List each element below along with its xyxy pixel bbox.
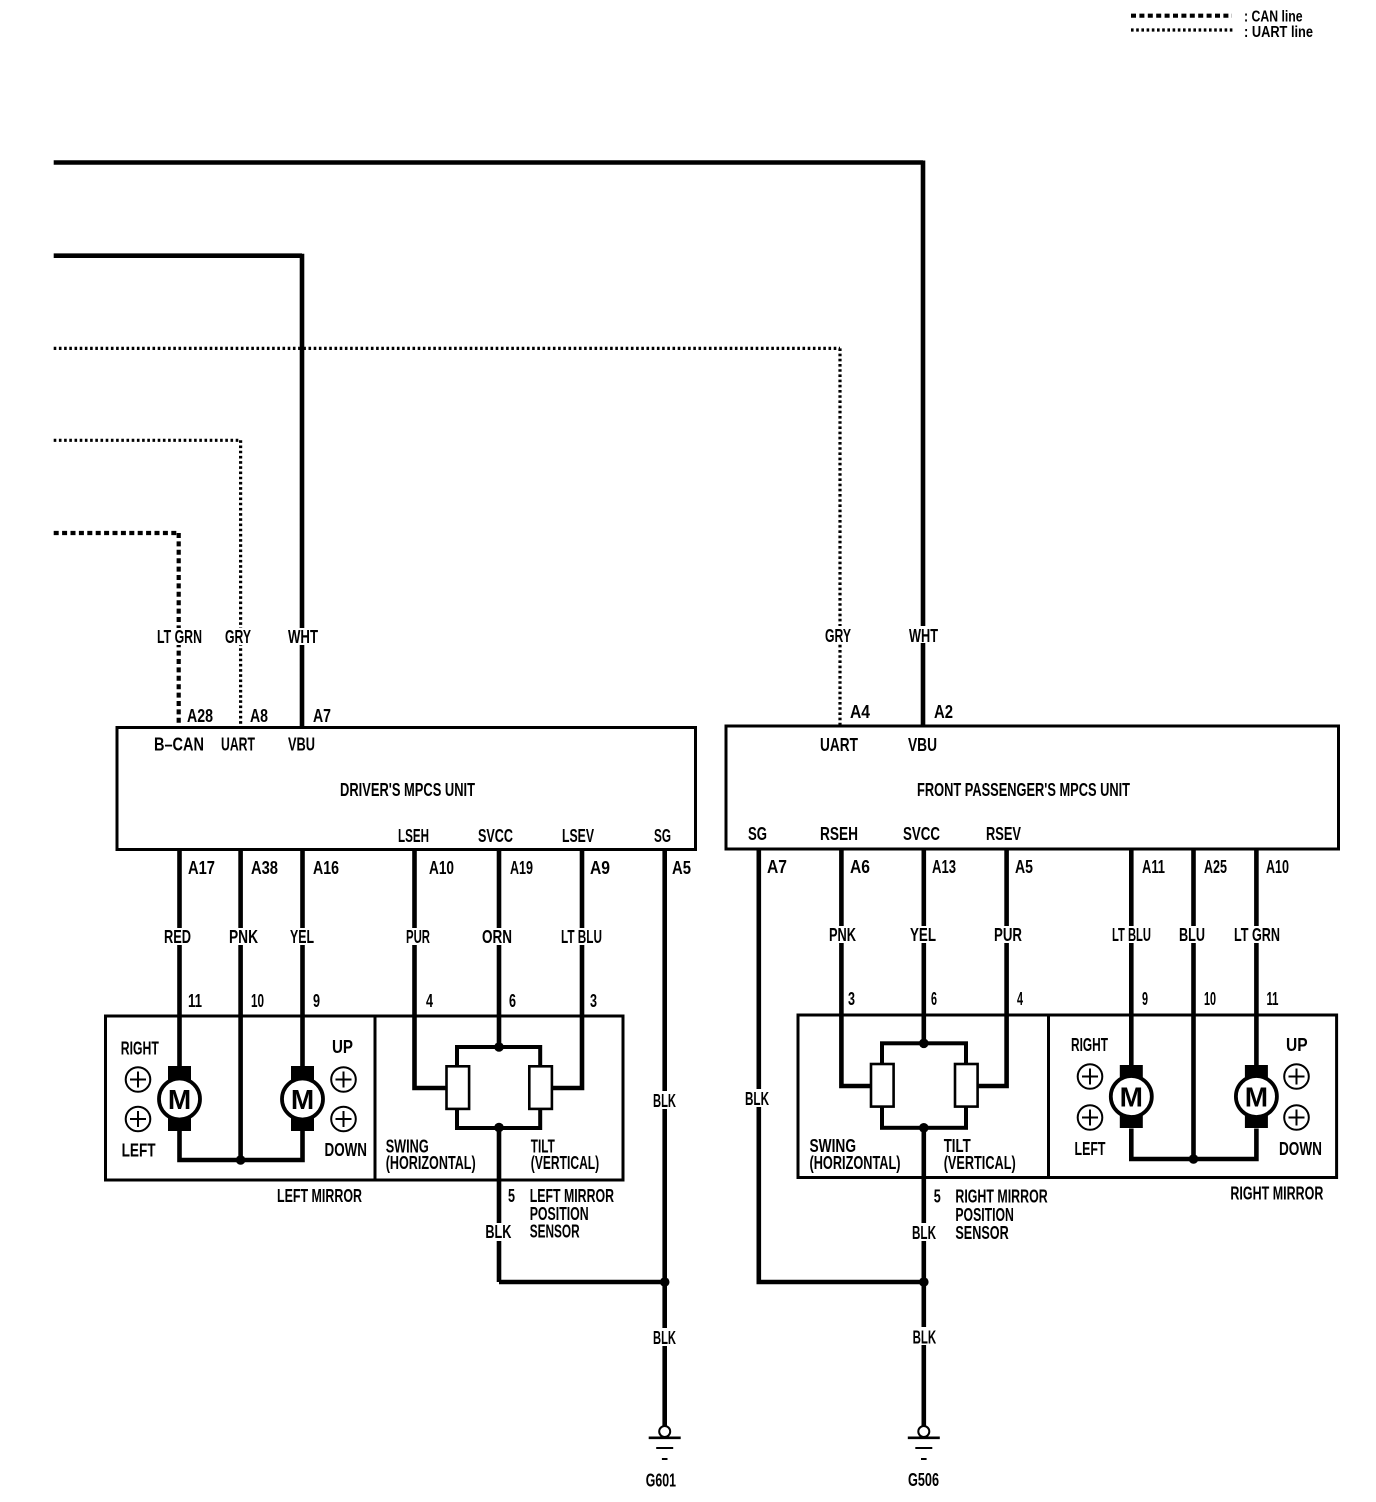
svg-text:UP: UP <box>332 1037 353 1057</box>
svg-text:6: 6 <box>509 991 516 1011</box>
svg-text:(HORIZONTAL): (HORIZONTAL) <box>386 1153 476 1173</box>
svg-text:YEL: YEL <box>910 925 936 945</box>
svg-text:3: 3 <box>590 991 597 1011</box>
svg-text:RIGHT MIRROR: RIGHT MIRROR <box>1230 1184 1323 1204</box>
svg-text:LT GRN: LT GRN <box>1234 925 1280 945</box>
svg-text:POSITION: POSITION <box>955 1205 1014 1225</box>
svg-text:: CAN line: : CAN line <box>1244 9 1303 26</box>
svg-text:A28: A28 <box>187 706 213 726</box>
svg-text:ORN: ORN <box>482 927 512 947</box>
svg-text:BLK: BLK <box>745 1089 769 1109</box>
svg-text:VBU: VBU <box>288 735 315 755</box>
svg-text:5: 5 <box>508 1186 515 1206</box>
svg-text:A13: A13 <box>932 857 956 877</box>
svg-text:M: M <box>291 1084 314 1115</box>
svg-text:DOWN: DOWN <box>325 1140 368 1160</box>
svg-text:A8: A8 <box>250 706 268 726</box>
svg-text:5: 5 <box>934 1187 941 1207</box>
svg-text:A19: A19 <box>510 858 533 878</box>
svg-text:UART: UART <box>221 735 255 755</box>
svg-text:M: M <box>1120 1082 1143 1113</box>
svg-text:DRIVER'S MPCS UNIT: DRIVER'S MPCS UNIT <box>340 780 475 800</box>
svg-text:FRONT PASSENGER'S MPCS UNIT: FRONT PASSENGER'S MPCS UNIT <box>917 780 1130 800</box>
svg-text:RSEV: RSEV <box>986 824 1021 844</box>
svg-text:A5: A5 <box>1015 857 1033 877</box>
svg-text:GRY: GRY <box>825 626 851 646</box>
svg-text:10: 10 <box>251 991 264 1011</box>
svg-text:4: 4 <box>1017 989 1023 1009</box>
svg-text:A2: A2 <box>934 702 953 722</box>
svg-text:6: 6 <box>931 989 937 1009</box>
svg-text:A11: A11 <box>1142 857 1165 877</box>
svg-text:9: 9 <box>313 991 320 1011</box>
svg-text:(HORIZONTAL): (HORIZONTAL) <box>810 1153 901 1173</box>
svg-text:11: 11 <box>1267 989 1279 1009</box>
svg-text:RIGHT: RIGHT <box>121 1039 159 1059</box>
svg-text:A9: A9 <box>590 858 610 878</box>
svg-text:LEFT: LEFT <box>1075 1139 1106 1159</box>
svg-text:A7: A7 <box>767 857 787 877</box>
svg-text:A38: A38 <box>251 858 278 878</box>
svg-text:A16: A16 <box>313 858 339 878</box>
svg-text:3: 3 <box>848 989 855 1009</box>
svg-text:B–CAN: B–CAN <box>154 735 204 755</box>
svg-text:LT GRN: LT GRN <box>157 627 202 647</box>
svg-text:SVCC: SVCC <box>903 824 940 844</box>
svg-text:RED: RED <box>164 927 191 947</box>
svg-text:A4: A4 <box>850 702 870 722</box>
svg-text:A17: A17 <box>188 858 215 878</box>
svg-text:PNK: PNK <box>229 927 258 947</box>
svg-text:(VERTICAL): (VERTICAL) <box>944 1153 1016 1173</box>
svg-text:4: 4 <box>426 991 433 1011</box>
svg-text:RIGHT: RIGHT <box>1071 1035 1108 1055</box>
svg-text:LEFT: LEFT <box>122 1141 156 1161</box>
svg-text:A7: A7 <box>313 706 331 726</box>
svg-text:11: 11 <box>188 991 202 1011</box>
svg-text:UART: UART <box>820 735 858 755</box>
svg-text:BLK: BLK <box>653 1091 676 1111</box>
svg-text:LT BLU: LT BLU <box>1112 925 1151 945</box>
svg-text:PNK: PNK <box>829 925 856 945</box>
svg-text:GRY: GRY <box>225 627 251 647</box>
svg-text:UP: UP <box>1286 1035 1308 1055</box>
svg-text:SVCC: SVCC <box>478 826 513 846</box>
svg-text:A10: A10 <box>429 858 454 878</box>
svg-text:PUR: PUR <box>994 925 1022 945</box>
svg-text:A10: A10 <box>1266 857 1289 877</box>
svg-text:WHT: WHT <box>909 626 938 646</box>
svg-text:RSEH: RSEH <box>820 824 858 844</box>
svg-text:BLK: BLK <box>913 1328 937 1348</box>
svg-text:WHT: WHT <box>288 627 318 647</box>
svg-text:RIGHT MIRROR: RIGHT MIRROR <box>955 1187 1047 1207</box>
svg-text:LSEV: LSEV <box>562 826 594 846</box>
svg-text:LEFT MIRROR: LEFT MIRROR <box>277 1186 362 1206</box>
svg-text:SENSOR: SENSOR <box>955 1223 1008 1243</box>
svg-text:BLK: BLK <box>485 1222 511 1242</box>
svg-text:G601: G601 <box>646 1471 676 1491</box>
svg-text:DOWN: DOWN <box>1279 1139 1322 1159</box>
svg-text:BLK: BLK <box>653 1328 676 1348</box>
svg-text:BLU: BLU <box>1179 925 1205 945</box>
svg-text:SG: SG <box>748 824 767 844</box>
svg-text:A5: A5 <box>672 858 691 878</box>
svg-text:10: 10 <box>1204 989 1216 1009</box>
svg-text:LT BLU: LT BLU <box>561 927 602 947</box>
svg-text:: UART line: : UART line <box>1244 24 1313 41</box>
svg-text:9: 9 <box>1142 989 1148 1009</box>
svg-text:BLK: BLK <box>912 1223 936 1243</box>
svg-text:G506: G506 <box>908 1470 939 1490</box>
svg-text:M: M <box>1245 1082 1268 1113</box>
svg-text:LSEH: LSEH <box>398 826 429 846</box>
svg-text:A6: A6 <box>850 857 870 877</box>
svg-text:SG: SG <box>654 826 671 846</box>
svg-text:M: M <box>168 1084 191 1115</box>
svg-text:YEL: YEL <box>290 927 314 947</box>
svg-text:VBU: VBU <box>908 735 937 755</box>
svg-text:LEFT MIRROR: LEFT MIRROR <box>530 1186 614 1206</box>
svg-text:SENSOR: SENSOR <box>530 1221 580 1241</box>
svg-text:(VERTICAL): (VERTICAL) <box>531 1153 599 1173</box>
svg-text:PUR: PUR <box>406 927 430 947</box>
svg-text:A25: A25 <box>1204 857 1227 877</box>
